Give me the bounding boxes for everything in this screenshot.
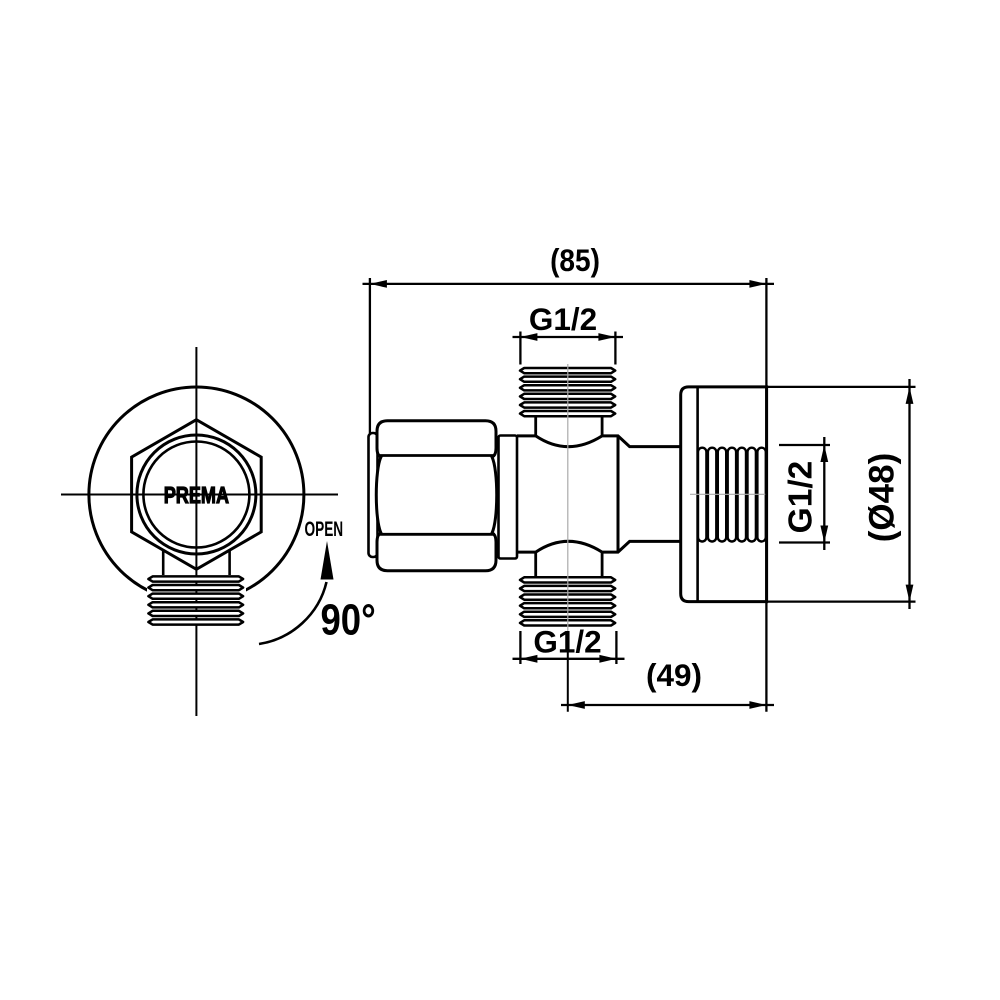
svg-text:(85): (85): [550, 244, 600, 279]
svg-text:(Ø48): (Ø48): [863, 453, 902, 542]
svg-text:PREMA: PREMA: [164, 483, 229, 509]
svg-text:G1/2: G1/2: [529, 301, 597, 337]
svg-text:90°: 90°: [320, 596, 375, 645]
svg-text:G1/2: G1/2: [783, 461, 820, 534]
svg-text:(49): (49): [646, 657, 702, 693]
svg-text:G1/2: G1/2: [533, 624, 601, 660]
svg-text:OPEN: OPEN: [305, 517, 344, 541]
